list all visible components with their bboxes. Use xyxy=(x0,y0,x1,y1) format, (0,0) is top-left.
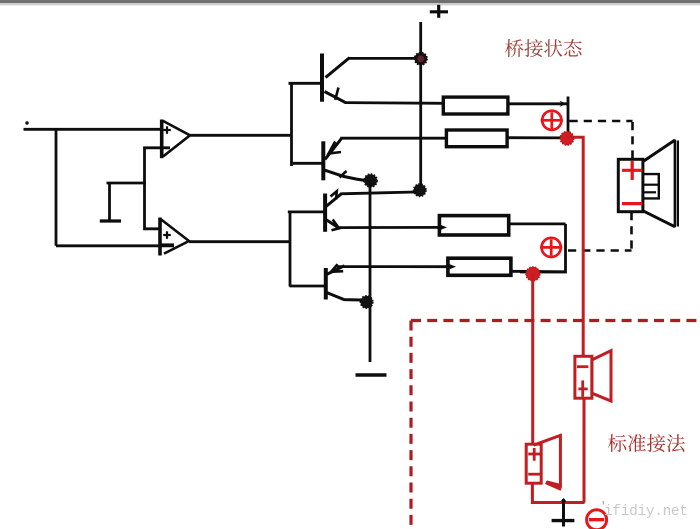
speaker SPK2 xyxy=(575,351,611,401)
+V supply rail xyxy=(419,22,422,190)
junction dot Q4 collector xyxy=(360,296,373,309)
wire feedback tee xyxy=(107,182,147,185)
top toolbar bar (decorative) xyxy=(0,0,700,5)
speaker SPK3 xyxy=(526,435,561,489)
wire input to U2 xyxy=(56,244,174,247)
junction dot Q2 collector xyxy=(364,174,377,187)
mid rail to -V xyxy=(369,181,372,363)
wire output stub bottom xyxy=(520,224,566,272)
red plus terminal upper xyxy=(541,111,563,130)
red junction dot lower xyxy=(526,267,540,281)
wire R2 right xyxy=(507,136,563,139)
minus supply symbol xyxy=(356,373,387,376)
transistor Q1 xyxy=(322,54,350,103)
node input dot xyxy=(25,121,28,124)
red wire SPK3 down xyxy=(532,483,584,502)
wire Q3 collector to +V xyxy=(340,192,416,194)
wire Q3 base xyxy=(288,210,325,213)
red wire from lower output xyxy=(531,274,534,445)
transistor Q4 xyxy=(326,264,362,300)
wire base rail Q1Q2 xyxy=(290,82,293,166)
label bridged-mode text xyxy=(505,39,582,57)
wire R3 right xyxy=(509,222,566,225)
ground symbol xyxy=(552,498,575,527)
wire R1 right xyxy=(508,102,568,105)
red minus terminal xyxy=(587,510,607,529)
wire U1 output xyxy=(190,134,293,137)
resistor R4 xyxy=(448,258,511,275)
dashed wire bridge top xyxy=(570,120,633,123)
wire Q1 collector to +V xyxy=(349,57,416,60)
transistor Q3 xyxy=(325,191,341,232)
junction dot +V bottom xyxy=(414,184,427,197)
speaker SPK1 bridged xyxy=(618,140,678,228)
wire input branch vertical xyxy=(55,128,58,246)
speaker SPK3 plus label xyxy=(528,448,540,461)
speaker SPK1 minus label xyxy=(622,202,642,205)
svg-text:ifidiy.net: ifidiy.net xyxy=(604,504,688,520)
junction dot +V top xyxy=(414,52,427,65)
wire R4 right xyxy=(511,270,566,273)
wire U2 output xyxy=(189,240,291,243)
speaker SPK2 minus label xyxy=(577,365,588,368)
resistor R2 xyxy=(446,130,507,147)
wire Q2 base xyxy=(293,162,324,165)
wire Q4 base xyxy=(290,285,326,288)
red plus terminal lower xyxy=(540,238,562,257)
transistor Q2 xyxy=(323,138,364,181)
op-amp U2 xyxy=(160,218,189,256)
wire U1 inverting input xyxy=(145,148,171,229)
wire Q2 emitter to R2 xyxy=(340,137,448,140)
speaker SPK1 plus label xyxy=(622,161,642,180)
ground bar xyxy=(100,219,121,222)
wire output stub top xyxy=(567,97,570,138)
wire Q1 emitter to R1 xyxy=(345,101,445,105)
wire Q4 emitter to R4 xyxy=(337,265,450,268)
resistor R3 xyxy=(439,216,508,235)
wire Q3 emitter to R3 xyxy=(338,226,442,229)
red wire SPK2 down xyxy=(583,398,586,502)
plus supply symbol xyxy=(430,5,448,18)
speaker SPK2 plus label xyxy=(578,380,587,396)
dashed red boundary xyxy=(411,319,700,322)
wire cap to ground xyxy=(108,183,111,221)
svg-text:': ' xyxy=(600,501,607,513)
wire Q1 base xyxy=(289,82,323,85)
speaker SPK3 minus label xyxy=(528,473,540,476)
dashed wire bridge bottom xyxy=(630,212,633,251)
op-amp U1 xyxy=(162,120,190,159)
wire base rail Q3Q4 xyxy=(289,211,292,287)
red junction dot upper xyxy=(560,131,574,145)
red wire from upper output xyxy=(567,137,583,356)
wire input horizontal xyxy=(24,128,163,131)
label standard-mode text xyxy=(608,434,685,452)
resistor R1 xyxy=(443,97,508,114)
